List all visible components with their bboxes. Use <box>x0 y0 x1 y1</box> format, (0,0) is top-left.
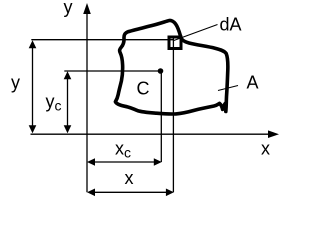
dimension line x_c (double arrow) <box>87 158 162 166</box>
leader line to dA label <box>174 25 218 41</box>
svg-text:xc: xc <box>115 139 131 161</box>
svg-text:dA: dA <box>220 15 242 35</box>
dimension line y_c (double arrow) <box>64 71 72 133</box>
centroid dot C <box>158 68 164 74</box>
area A outline (hand-drawn blob) <box>115 20 227 114</box>
svg-text:yc: yc <box>46 92 62 114</box>
svg-text:y: y <box>11 73 20 93</box>
extension line at height of dA (y dimension top) <box>31 39 173 41</box>
vertical line from centroid down to x_c dimension <box>160 71 162 162</box>
svg-text:x: x <box>125 168 134 188</box>
svg-text:A: A <box>247 73 259 93</box>
x-axis <box>31 130 280 138</box>
svg-text:C: C <box>137 79 150 99</box>
extension line from centroid C (y_c top) <box>64 70 160 72</box>
svg-text:x: x <box>261 139 270 159</box>
dimension line x (double arrow) <box>87 189 174 197</box>
dimension line y (double arrow) <box>29 40 37 133</box>
leader line to A label <box>218 86 238 91</box>
vertical line from dA down to x dimension <box>172 39 174 193</box>
element dA square <box>169 37 181 49</box>
y-axis <box>83 3 91 192</box>
svg-text:y: y <box>64 0 73 17</box>
